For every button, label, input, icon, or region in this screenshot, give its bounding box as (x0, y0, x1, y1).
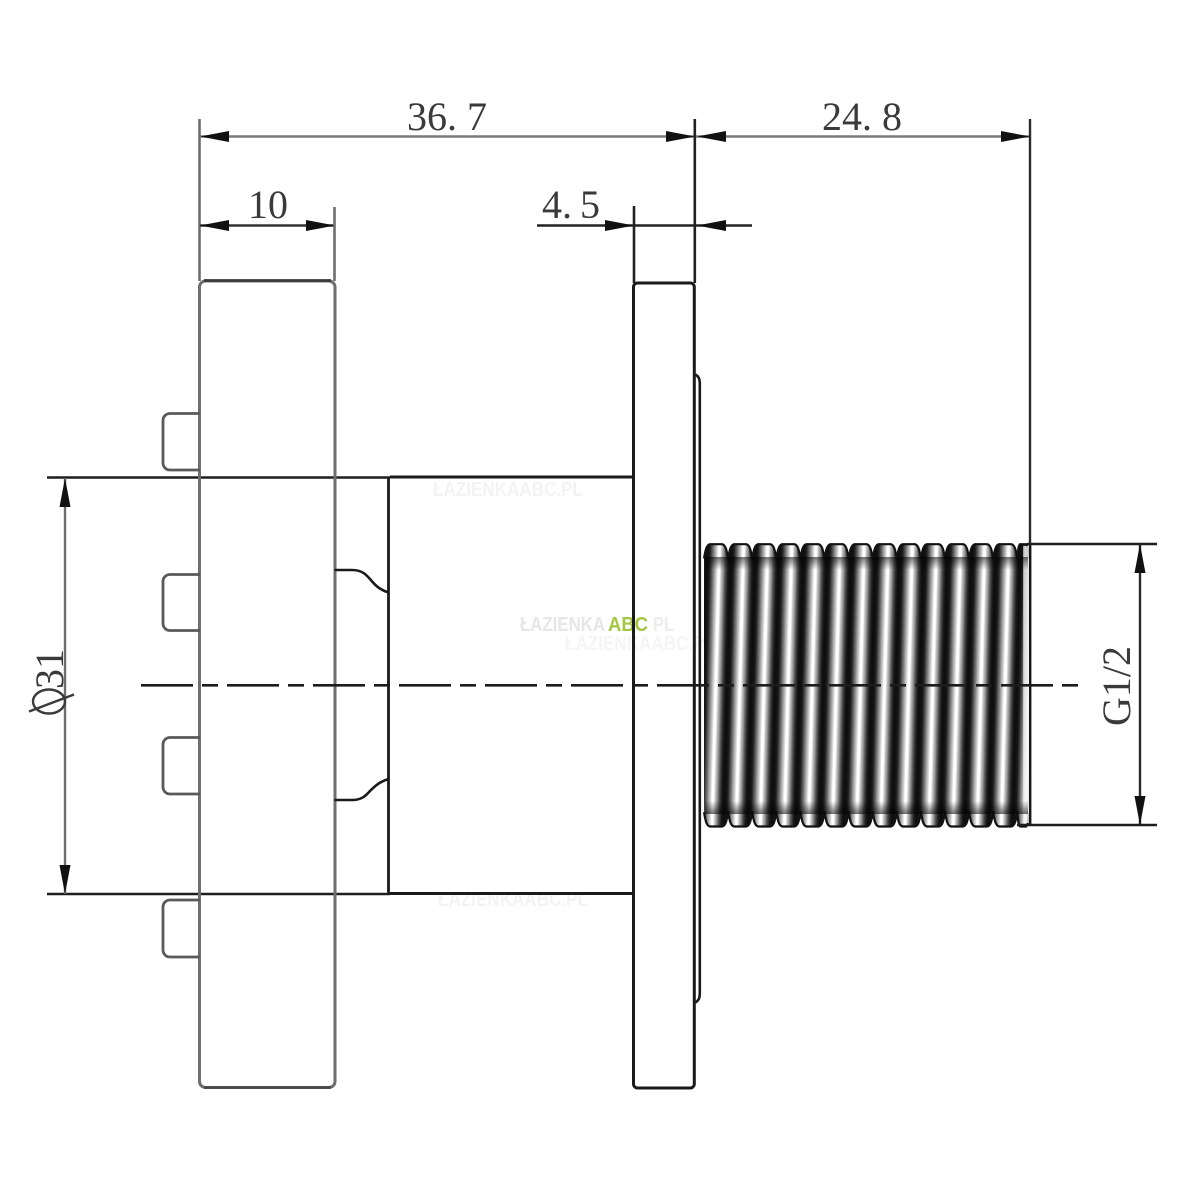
arrowhead 24.8 left (697, 131, 726, 142)
G1/2 dimension line (1139, 544, 1141, 825)
extension line 10 right x=334.5 (333, 207, 336, 281)
arrowhead G1/2 top (1135, 544, 1146, 573)
svg-text:PL: PL (653, 614, 674, 636)
arrowhead 36.7 right (666, 131, 695, 142)
thread G1/2 body (704, 544, 1029, 826)
thread crest outline bottom (704, 812, 1029, 826)
svg-text:24. 8: 24. 8 (822, 94, 902, 139)
left flange bottom edge (204, 1086, 331, 1089)
extension line 4.5 left x=634 (633, 206, 636, 283)
G1/2 extension bottom (1017, 824, 1157, 827)
dimension symbol dia31 circle (33, 690, 65, 714)
arrowhead 10 right (306, 220, 335, 231)
arrowhead dia31 bottom (60, 865, 71, 894)
extension line mid x=695 (693, 119, 696, 283)
arrowhead 36.7 left (200, 131, 229, 142)
svg-text:31: 31 (27, 649, 72, 689)
dimension symbol dia31 slash (29, 695, 74, 712)
thread root shadow bottom (705, 801, 1028, 814)
rib tab 1 (163, 414, 200, 471)
arrowhead 4.5 left (outside) (605, 220, 634, 231)
extension line left x=200 (198, 119, 201, 281)
washer neck edge (696, 375, 700, 1003)
rib tab 2 (163, 575, 200, 631)
extension line right x=1030 (1029, 119, 1031, 543)
dimension line 24.8 (695, 135, 1030, 137)
centerline (141, 684, 1080, 687)
body left edge (387, 478, 390, 895)
body bottom edge (390, 892, 634, 895)
svg-text:4.5: 4.5 (542, 182, 600, 227)
thread root shadow top (705, 557, 1028, 570)
svg-text:36. 7: 36. 7 (407, 94, 487, 139)
diameter 31 dimension line (64, 478, 66, 894)
left flange top edge (204, 279, 331, 282)
arrowhead 4.5 right (outside) (697, 220, 726, 231)
dimension line 10 (200, 224, 335, 226)
svg-text:ABC: ABC (608, 614, 648, 636)
diameter 31 extension bottom (47, 893, 390, 896)
fillet runout bottom (335, 779, 389, 800)
svg-text:G1/2: G1/2 (1094, 646, 1139, 726)
dimension line 4.5 (537, 224, 752, 226)
arrowhead G1/2 bottom (1135, 796, 1146, 825)
arrowhead 24.8 right (1001, 131, 1030, 142)
left flange body (200, 281, 336, 1088)
rib tab 3 (163, 738, 200, 795)
G1/2 extension top (1027, 543, 1157, 546)
right flange (634, 283, 695, 1088)
thread end bright zone (1023, 546, 1029, 823)
diameter 31 extension top (47, 476, 390, 479)
thread crest outline top (704, 544, 1029, 558)
body top edge (390, 476, 634, 479)
svg-text:ŁAZIENKAABC.PL: ŁAZIENKAABC.PL (433, 479, 583, 501)
fillet runout top (335, 570, 389, 593)
thread end face (1029, 545, 1031, 825)
rib tab 4 (163, 900, 200, 957)
arrowhead 10 left (200, 220, 229, 231)
arrowhead dia31 top (60, 478, 71, 507)
svg-text:ŁAZIENKAABC.PL: ŁAZIENKAABC.PL (565, 633, 715, 655)
svg-text:10: 10 (248, 182, 288, 227)
dimension line 36.7 (200, 135, 695, 137)
svg-text:ŁAZIENKA: ŁAZIENKA (520, 614, 605, 636)
